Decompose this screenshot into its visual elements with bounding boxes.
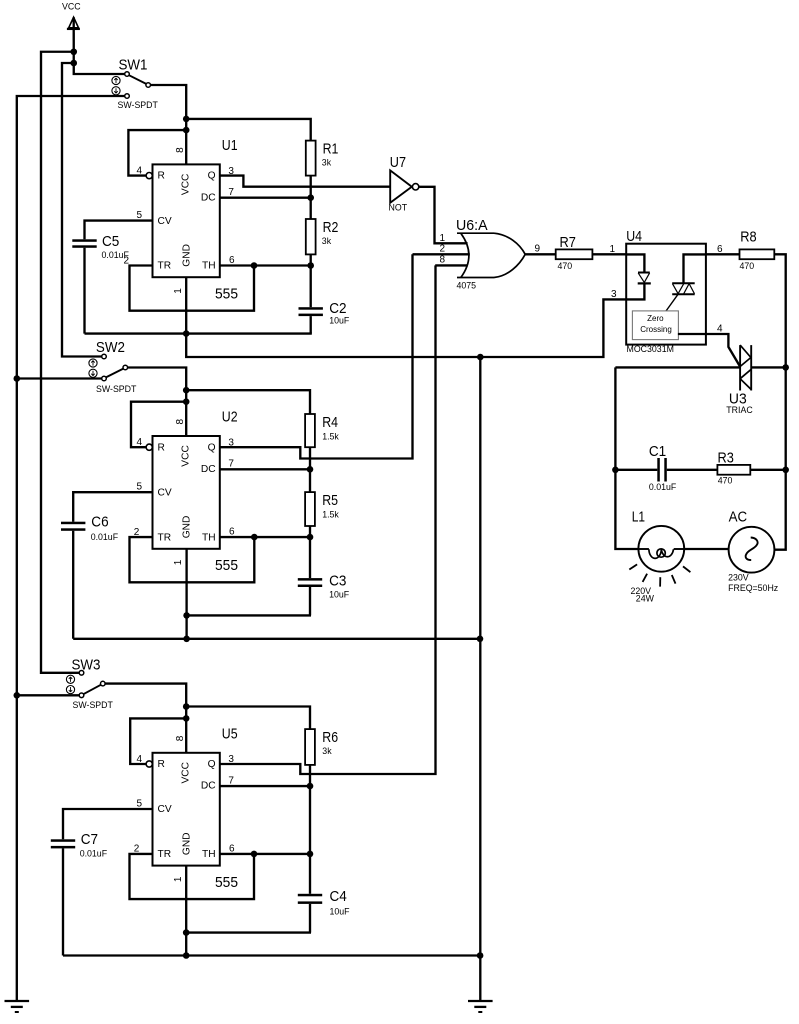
svg-text:3k: 3k bbox=[322, 746, 332, 756]
svg-text:1: 1 bbox=[173, 288, 184, 294]
svg-text:4: 4 bbox=[717, 324, 723, 335]
svg-text:Zero: Zero bbox=[647, 314, 664, 323]
svg-text:R6: R6 bbox=[322, 729, 338, 746]
svg-text:R1: R1 bbox=[323, 141, 339, 158]
svg-text:SW-SPDT: SW-SPDT bbox=[96, 384, 137, 394]
svg-text:Q: Q bbox=[208, 171, 216, 182]
svg-text:R8: R8 bbox=[740, 229, 756, 246]
svg-text:0.01uF: 0.01uF bbox=[91, 532, 119, 542]
svg-text:8: 8 bbox=[439, 255, 445, 266]
svg-text:R4: R4 bbox=[322, 414, 338, 431]
svg-text:FREQ=50Hz: FREQ=50Hz bbox=[728, 583, 778, 593]
svg-text:8: 8 bbox=[175, 735, 186, 741]
svg-text:NOT: NOT bbox=[389, 203, 408, 213]
svg-text:555: 555 bbox=[215, 557, 238, 574]
svg-text:SW-SPDT: SW-SPDT bbox=[118, 100, 159, 110]
svg-text:R2: R2 bbox=[323, 219, 339, 236]
svg-text:470: 470 bbox=[718, 475, 733, 485]
svg-text:U5: U5 bbox=[222, 725, 238, 742]
svg-text:470: 470 bbox=[740, 261, 755, 271]
svg-text:7: 7 bbox=[228, 775, 234, 786]
svg-text:TR: TR bbox=[158, 849, 172, 860]
svg-text:TH: TH bbox=[202, 261, 216, 272]
svg-text:SW-SPDT: SW-SPDT bbox=[73, 700, 114, 710]
svg-text:0.01uF: 0.01uF bbox=[80, 848, 108, 858]
svg-text:5: 5 bbox=[136, 798, 142, 809]
svg-text:4075: 4075 bbox=[457, 281, 477, 291]
svg-text:1: 1 bbox=[173, 876, 184, 882]
svg-text:10uF: 10uF bbox=[330, 907, 351, 917]
svg-text:C3: C3 bbox=[329, 573, 346, 590]
svg-text:555: 555 bbox=[215, 874, 238, 891]
svg-text:R: R bbox=[158, 442, 165, 453]
svg-text:TR: TR bbox=[158, 532, 172, 543]
svg-text:L1: L1 bbox=[632, 508, 645, 525]
svg-text:TR: TR bbox=[158, 261, 172, 272]
svg-text:C5: C5 bbox=[102, 233, 119, 250]
svg-text:9: 9 bbox=[535, 244, 541, 255]
svg-text:CV: CV bbox=[158, 487, 172, 498]
svg-text:SW2: SW2 bbox=[96, 339, 125, 356]
svg-text:VCC: VCC bbox=[180, 762, 191, 784]
svg-text:3k: 3k bbox=[322, 158, 332, 168]
svg-text:5: 5 bbox=[136, 210, 142, 221]
svg-text:VCC: VCC bbox=[180, 174, 191, 196]
svg-text:SW3: SW3 bbox=[72, 657, 101, 674]
svg-text:R5: R5 bbox=[322, 492, 338, 509]
svg-text:R3: R3 bbox=[718, 450, 734, 467]
svg-text:7: 7 bbox=[228, 187, 234, 198]
svg-text:DC: DC bbox=[201, 192, 216, 203]
svg-text:C4: C4 bbox=[330, 888, 347, 905]
svg-text:555: 555 bbox=[215, 286, 238, 303]
svg-text:7: 7 bbox=[228, 459, 234, 470]
svg-text:DC: DC bbox=[201, 464, 216, 475]
svg-text:TH: TH bbox=[202, 849, 216, 860]
svg-text:1: 1 bbox=[173, 559, 184, 565]
svg-text:10uF: 10uF bbox=[329, 316, 350, 326]
svg-text:Crossing: Crossing bbox=[640, 325, 672, 334]
svg-text:R: R bbox=[158, 171, 165, 182]
svg-text:Q: Q bbox=[208, 442, 216, 453]
svg-text:230V: 230V bbox=[728, 573, 749, 583]
svg-text:Q: Q bbox=[208, 759, 216, 770]
svg-text:U1: U1 bbox=[222, 137, 238, 154]
svg-text:0.01uF: 0.01uF bbox=[102, 250, 130, 260]
svg-text:470: 470 bbox=[558, 261, 573, 271]
svg-text:8: 8 bbox=[175, 147, 186, 153]
svg-text:C7: C7 bbox=[81, 831, 98, 848]
svg-text:5: 5 bbox=[136, 482, 142, 493]
svg-text:10uF: 10uF bbox=[329, 590, 350, 600]
svg-text:3: 3 bbox=[611, 289, 617, 300]
svg-text:TRIAC: TRIAC bbox=[726, 405, 753, 415]
svg-text:U7: U7 bbox=[390, 154, 406, 171]
svg-text:1.5k: 1.5k bbox=[322, 432, 339, 442]
svg-text:GND: GND bbox=[181, 244, 192, 267]
svg-text:VCC: VCC bbox=[62, 2, 81, 12]
svg-text:MOC3031M: MOC3031M bbox=[627, 344, 674, 354]
svg-text:GND: GND bbox=[181, 832, 192, 855]
svg-text:1: 1 bbox=[609, 244, 615, 255]
svg-text:C1: C1 bbox=[649, 443, 666, 460]
svg-text:2: 2 bbox=[439, 243, 445, 254]
svg-text:3k: 3k bbox=[322, 236, 332, 246]
svg-text:TH: TH bbox=[202, 532, 216, 543]
svg-text:U6:A: U6:A bbox=[456, 217, 488, 234]
svg-text:U2: U2 bbox=[222, 409, 238, 426]
svg-text:0.01uF: 0.01uF bbox=[649, 482, 677, 492]
svg-text:1.5k: 1.5k bbox=[322, 510, 339, 520]
svg-text:R: R bbox=[158, 759, 165, 770]
svg-text:CV: CV bbox=[158, 804, 172, 815]
svg-text:24W: 24W bbox=[636, 593, 655, 603]
svg-text:SW1: SW1 bbox=[119, 57, 148, 74]
svg-text:AC: AC bbox=[729, 508, 748, 525]
svg-text:CV: CV bbox=[158, 216, 172, 227]
svg-text:R7: R7 bbox=[560, 234, 576, 251]
svg-text:U4: U4 bbox=[626, 228, 642, 245]
svg-text:GND: GND bbox=[181, 516, 192, 539]
svg-text:8: 8 bbox=[175, 419, 186, 425]
svg-text:C6: C6 bbox=[91, 513, 108, 530]
svg-text:VCC: VCC bbox=[180, 445, 191, 467]
svg-text:DC: DC bbox=[201, 781, 216, 792]
